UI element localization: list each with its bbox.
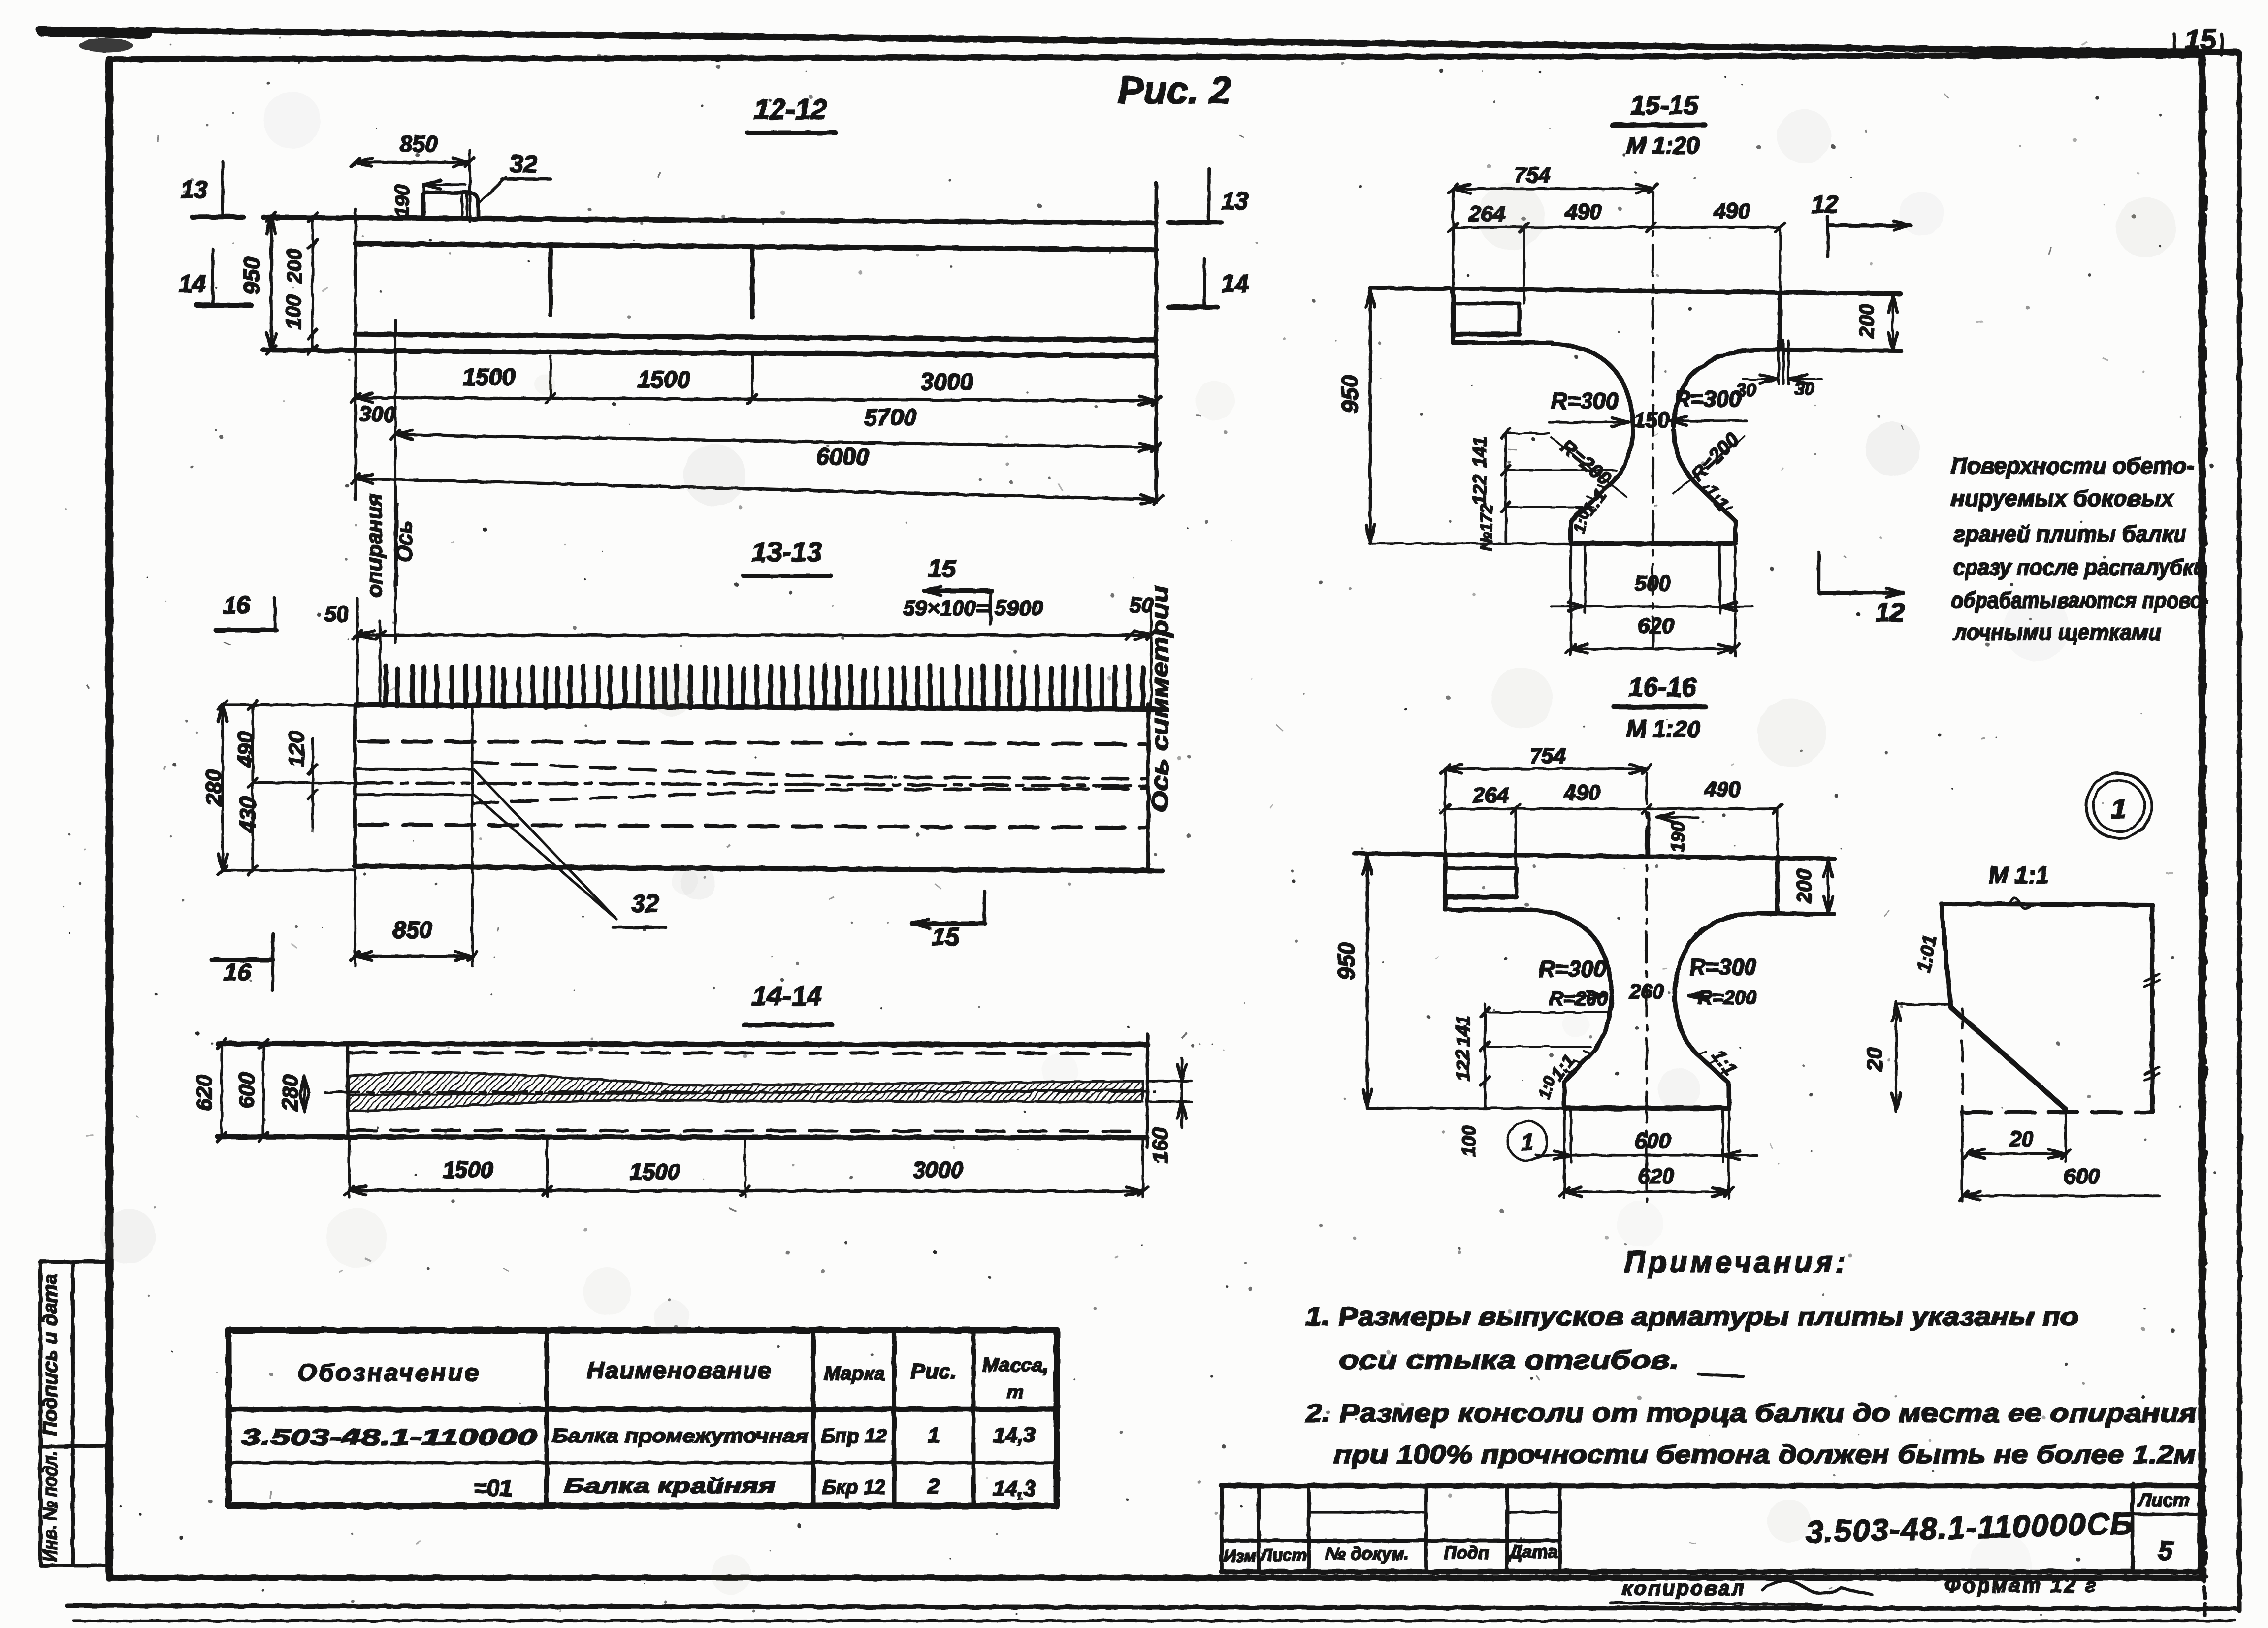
svg-text:Бкр 12: Бкр 12 [822, 1476, 886, 1498]
svg-text:59×100= 5900: 59×100= 5900 [903, 596, 1043, 620]
svg-text:122: 122 [1470, 474, 1490, 505]
svg-text:950: 950 [1333, 942, 1359, 980]
svg-text:16-16: 16-16 [1628, 672, 1697, 702]
svg-text:=01: =01 [474, 1475, 512, 1500]
svg-text:490: 490 [1704, 777, 1741, 801]
svg-text:16: 16 [223, 591, 251, 619]
svg-text:15: 15 [932, 923, 960, 951]
svg-text:Изм: Изм [1224, 1547, 1257, 1565]
svg-text:950: 950 [239, 256, 264, 294]
svg-text:Балка промежуточная: Балка промежуточная [552, 1425, 808, 1447]
svg-text:нируемых боковых: нируемых боковых [1951, 485, 2174, 511]
svg-text:12-12: 12-12 [754, 94, 827, 126]
svg-text:620: 620 [1638, 614, 1674, 638]
svg-text:1500: 1500 [630, 1159, 680, 1184]
svg-text:12: 12 [1875, 598, 1905, 627]
svg-text:R=300: R=300 [1539, 956, 1606, 982]
svg-text:160: 160 [1148, 1127, 1172, 1164]
svg-text:280: 280 [202, 769, 226, 806]
svg-text:100: 100 [282, 295, 305, 329]
svg-text:М 1:1: М 1:1 [1989, 862, 2049, 889]
svg-text:850: 850 [400, 131, 438, 157]
svg-text:Балка крайняя: Балка крайняя [564, 1474, 776, 1497]
svg-text:13: 13 [1221, 187, 1249, 215]
svg-text:490: 490 [1565, 200, 1602, 224]
svg-text:190: 190 [391, 185, 413, 218]
svg-text:1500: 1500 [638, 367, 690, 393]
svg-text:20: 20 [1863, 1047, 1887, 1072]
svg-text:Рис. 2: Рис. 2 [1118, 68, 1231, 112]
svg-text:5: 5 [2158, 1536, 2173, 1565]
svg-text:М 1:20: М 1:20 [1626, 133, 1700, 159]
svg-text:14,3: 14,3 [993, 1423, 1036, 1447]
svg-text:500: 500 [1634, 572, 1671, 596]
svg-text:620: 620 [193, 1075, 217, 1111]
svg-text:600: 600 [1634, 1129, 1671, 1153]
svg-text:опирания: опирания [362, 493, 387, 597]
svg-text:264: 264 [1472, 783, 1509, 807]
svg-text:1500: 1500 [463, 364, 516, 390]
svg-text:150: 150 [1633, 408, 1670, 432]
svg-text:Лист: Лист [2137, 1490, 2190, 1511]
svg-text:12: 12 [1811, 191, 1839, 218]
svg-text:обрабатываются прово-: обрабатываются прово- [1951, 587, 2209, 613]
svg-text:2: 2 [927, 1474, 940, 1499]
svg-text:30: 30 [1794, 379, 1814, 399]
svg-text:R=200: R=200 [1550, 988, 1608, 1010]
svg-text:граней плиты балки: граней плиты балки [1953, 521, 2187, 546]
svg-text:200: 200 [283, 249, 306, 284]
svg-text:R=300: R=300 [1551, 388, 1619, 414]
svg-text:490: 490 [1563, 781, 1600, 805]
svg-text:141: 141 [1453, 1015, 1474, 1046]
svg-text:№172: №172 [1477, 504, 1496, 551]
svg-text:сразу после распалубки: сразу после распалубки [1953, 554, 2206, 580]
svg-text:850: 850 [393, 917, 432, 943]
svg-text:Подпись и дата: Подпись и дата [39, 1274, 61, 1436]
svg-text:15-15: 15-15 [1630, 91, 1699, 120]
svg-text:R=300: R=300 [1674, 386, 1742, 412]
svg-text:14,3: 14,3 [993, 1476, 1036, 1500]
svg-text:5700: 5700 [864, 405, 917, 431]
svg-text:№ докум.: № докум. [1326, 1543, 1410, 1564]
svg-text:1. Размеры выпусков арматуры п: 1. Размеры выпусков арматуры плиты указа… [1305, 1303, 2078, 1331]
svg-text:R=200: R=200 [1698, 987, 1757, 1009]
svg-text:280: 280 [278, 1075, 302, 1112]
svg-text:Рис.: Рис. [911, 1359, 957, 1383]
svg-text:120: 120 [285, 731, 309, 767]
svg-text:100: 100 [1459, 1125, 1480, 1156]
svg-text:Обозначение: Обозначение [297, 1359, 481, 1386]
svg-text:т: т [1007, 1382, 1024, 1403]
svg-text:200: 200 [1855, 304, 1878, 339]
svg-text:141: 141 [1470, 436, 1490, 467]
svg-text:620: 620 [1638, 1164, 1674, 1188]
svg-text:600: 600 [235, 1072, 259, 1109]
svg-text:190: 190 [1668, 821, 1688, 852]
svg-text:оси стыка отгибов.: оси стыка отгибов. [1339, 1346, 1679, 1374]
svg-text:754: 754 [1514, 163, 1550, 187]
svg-text:Дата: Дата [1508, 1541, 1557, 1562]
svg-text:14: 14 [1221, 270, 1249, 297]
svg-text:490: 490 [233, 731, 258, 768]
svg-text:754: 754 [1529, 744, 1565, 768]
svg-text:122: 122 [1453, 1050, 1474, 1081]
svg-text:R=300: R=300 [1689, 954, 1757, 980]
svg-text:Подп: Подп [1444, 1542, 1489, 1563]
svg-text:Лист: Лист [1259, 1546, 1306, 1564]
svg-text:32: 32 [510, 150, 537, 178]
svg-text:Поверхности обето-: Поверхности обето- [1951, 453, 2194, 479]
svg-text:32: 32 [631, 890, 659, 917]
svg-text:430: 430 [236, 797, 260, 833]
svg-text:15: 15 [928, 555, 956, 582]
svg-text:1: 1 [928, 1423, 940, 1447]
svg-text:Масса,: Масса, [982, 1354, 1048, 1376]
svg-text:М 1:20: М 1:20 [1626, 716, 1700, 742]
svg-text:1: 1 [1521, 1129, 1534, 1155]
svg-text:3.503-48.1-110000: 3.503-48.1-110000 [241, 1424, 537, 1450]
svg-text:2. Размер консоли от торца бал: 2. Размер консоли от торца балки до мест… [1305, 1399, 2197, 1428]
svg-text:Бпр 12: Бпр 12 [821, 1425, 887, 1447]
svg-text:Ось симметрии: Ось симметрии [1147, 586, 1173, 812]
svg-text:50: 50 [324, 602, 349, 626]
svg-text:1: 1 [2111, 793, 2126, 824]
svg-text:16: 16 [224, 958, 252, 986]
svg-text:950: 950 [1337, 375, 1362, 413]
svg-text:3000: 3000 [913, 1157, 964, 1182]
svg-text:14-14: 14-14 [751, 980, 822, 1011]
svg-text:20: 20 [2009, 1127, 2034, 1151]
svg-text:15: 15 [2184, 24, 2216, 56]
svg-text:600: 600 [2064, 1164, 2100, 1188]
svg-text:6000: 6000 [816, 444, 869, 470]
svg-text:300: 300 [359, 402, 395, 426]
svg-text:14: 14 [178, 270, 206, 297]
svg-text:Наименование: Наименование [587, 1358, 772, 1384]
svg-text:Примечания:: Примечания: [1624, 1245, 1848, 1278]
svg-text:490: 490 [1713, 199, 1750, 223]
svg-text:при 100% прочности бетона долж: при 100% прочности бетона должен быть не… [1334, 1440, 2196, 1469]
svg-text:1500: 1500 [443, 1157, 493, 1182]
svg-text:200: 200 [1792, 869, 1815, 904]
svg-text:Марка: Марка [824, 1363, 885, 1384]
svg-text:Инв. № подл.: Инв. № подл. [39, 1451, 61, 1562]
svg-text:3000: 3000 [921, 369, 973, 395]
